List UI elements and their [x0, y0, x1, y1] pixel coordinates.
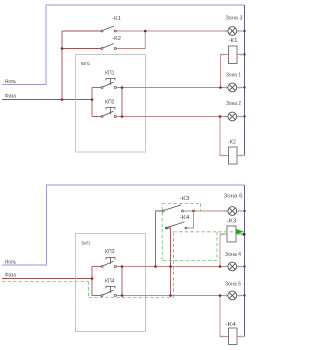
- green path toward and through coil K3: [174, 231, 237, 233]
- lamp HL Зона 4: [228, 262, 237, 271]
- coil K1: [229, 46, 238, 64]
- svg-text:Зона 4: Зона 4: [225, 252, 241, 258]
- junction dot bus/Зона 2: [243, 115, 245, 117]
- wire coil K1 left tap down to Зона 1 row: [221, 55, 229, 88]
- coil K4: [229, 328, 238, 345]
- svg-text:-К2: -К2: [112, 36, 121, 42]
- junction dot riser155/КП3 row: [154, 265, 157, 268]
- coil K2: [229, 147, 238, 164]
- junction dot bus/Зона 6: [243, 210, 245, 212]
- wire КП3 output row to lamp Зона 4: [117, 266, 228, 268]
- junction dot riser/K2 row: [61, 47, 64, 50]
- junction dot link2/КП4 row: [121, 294, 124, 297]
- svg-text:-К3: -К3: [227, 219, 237, 225]
- lamp HL Зона 6: [228, 207, 237, 216]
- wire coil K3 left tap down to Зона 4 row: [220, 234, 227, 267]
- contact K3 (-К3 relay contact, NO): [162, 205, 184, 212]
- wire coil K2 left tap from Зона 2 row: [220, 117, 229, 156]
- svg-text:-К4: -К4: [225, 322, 236, 328]
- wire coil K4 right to bus: [237, 336, 245, 338]
- green path left vertical beside К3 riser: [161, 204, 163, 261]
- wire neutral bus (Ноль): left feed, up, top run, right bus down: [2, 5, 245, 85]
- svg-text:Фаза: Фаза: [5, 93, 17, 99]
- svg-text:-К1: -К1: [229, 38, 238, 44]
- wire КП4 output row to lamp Зона 5: [117, 295, 228, 297]
- svg-text:-К3: -К3: [180, 196, 190, 202]
- svg-text:ВкП1: ВкП1: [81, 61, 90, 67]
- wire link 2 x=122 between button rows: [121, 267, 123, 296]
- svg-text:Зона 2: Зона 2: [226, 101, 241, 107]
- pushbutton КП4: [101, 287, 116, 297]
- wire riser x=155.5 КП3 row to K3 contact row: [156, 211, 163, 267]
- svg-text:-К1: -К1: [112, 16, 121, 22]
- contact K1 (-К1 relay contact, NO): [101, 26, 116, 32]
- contact K2 (-К2 relay contact, NO): [101, 44, 116, 50]
- junction dot riser170/КП3 row crossing: [169, 265, 172, 268]
- wire coil K2 right to bus: [237, 155, 245, 157]
- wire КП1 output row to lamp Зона 1: [117, 87, 228, 89]
- svg-text:Зона 6: Зона 6: [224, 194, 243, 200]
- wire into КП1: [92, 87, 101, 89]
- wire КП2 output row to lamp Зона 2: [117, 116, 228, 118]
- green path drop to КП4 row: [88, 282, 90, 298]
- svg-text:Зона 1: Зона 1: [226, 73, 241, 79]
- wire button branch riser 2 x=92: [91, 267, 93, 296]
- svg-text:КП1: КП1: [105, 71, 115, 77]
- junction dot K4 riser joins K3 row: [192, 210, 195, 213]
- green path across above contact К3: [162, 203, 200, 205]
- wire lamp Зона 2 to bus: [237, 116, 245, 118]
- junction dot phase/branch: [91, 98, 94, 101]
- junction dot bus/coil K3: [243, 233, 246, 236]
- svg-text:Фаза: Фаза: [5, 272, 17, 278]
- svg-text:-К2: -К2: [228, 140, 236, 146]
- green path down beside coil tap riser: [216, 232, 218, 261]
- junction dot tap/Зона 2 row: [219, 115, 222, 118]
- junction dot K2->K1 row: [144, 30, 147, 33]
- lamp HL Зона 5: [228, 291, 237, 300]
- green arrow exiting coil K3 toward bus: [237, 230, 243, 234]
- wire K1 row to lamp Зона 3: [117, 30, 228, 32]
- wire neutral right bus (top circuit): [244, 5, 246, 156]
- green path riser beside x=170.5: [173, 232, 175, 298]
- wire link x=122 between button rows: [121, 88, 123, 117]
- lamp HL Зона 1: [228, 83, 237, 92]
- wire into КП3: [92, 266, 101, 268]
- pushbutton КП2: [101, 108, 116, 118]
- junction dot link2/КП3 row: [121, 265, 124, 268]
- junction dot bus/coil K1: [243, 53, 245, 55]
- svg-text:-К4: -К4: [180, 215, 190, 221]
- wire lamp Зона 5 to bus: [237, 295, 245, 297]
- pushbutton КП3: [101, 258, 116, 268]
- wire coil K1 right to bus: [237, 54, 245, 56]
- wire coil K4 left tap from Зона 5 row: [220, 296, 229, 337]
- junction dot riser170/КП4 row: [169, 294, 172, 297]
- wire K3 row to lamp Зона 6: [184, 210, 228, 212]
- svg-text:Зона 5: Зона 5: [225, 282, 241, 288]
- wire feed riser x=62 to contact rows: [61, 31, 63, 100]
- wire into КП2: [92, 116, 101, 118]
- wire lamp Зона 3 to bus: [237, 30, 245, 32]
- green path horizontal at y=260.5: [162, 260, 217, 262]
- svg-text:Зона 3: Зона 3: [226, 16, 243, 22]
- green path down to К3 row: [200, 204, 202, 212]
- wire neutral right bus (bottom circuit): [244, 185, 246, 337]
- svg-text:Ноль: Ноль: [5, 259, 16, 265]
- svg-text:КП2: КП2: [105, 100, 115, 106]
- junction dot bus/Зона 3: [243, 30, 245, 32]
- wire phase (Фаза) horizontal: [2, 99, 92, 101]
- junction dot tap/Зона 5 row: [219, 294, 222, 297]
- svg-text:ВкП1: ВкП1: [82, 241, 91, 247]
- wire neutral bus 2 (Ноль): left feed, up, top run, right bus down: [2, 185, 245, 265]
- wire K4 output up to K3 row: [187, 211, 194, 228]
- coil K3: [227, 226, 236, 242]
- wire lamp Зона 6 to bus: [237, 210, 245, 212]
- wire K2 contact row left: [62, 48, 101, 50]
- green path along Фаза 2: [2, 281, 89, 283]
- junction dot bus/Зона 4: [243, 265, 245, 267]
- terminal tick marks (connection points): [221, 30, 242, 338]
- pushbutton КП1: [101, 79, 116, 89]
- green path under КП4 row: [89, 297, 174, 299]
- enclosure box ВкП1 (bottom): [76, 234, 146, 332]
- svg-text:КП4: КП4: [105, 278, 115, 284]
- junction dot bus/Зона 5: [243, 294, 245, 296]
- junction dot tap/Зона 4 row: [219, 265, 222, 268]
- junction dot link/КП1 row: [121, 86, 124, 89]
- wire phase 2 (Фаза) horizontal: [2, 278, 92, 280]
- wire riser x=170.5 КП4 row up to K4 contact: [166, 228, 171, 296]
- wire coil K3 right to bus: [236, 233, 245, 235]
- svg-text:КП3: КП3: [105, 249, 115, 255]
- junction dot bus/Зона 1: [243, 86, 245, 88]
- lamp HL Зона 2: [228, 112, 237, 121]
- lamp HL Зона 3: [228, 27, 237, 36]
- wire lamp Зона 4 to bus: [237, 266, 245, 268]
- wire K1 contact row left: [62, 30, 101, 32]
- contact K4 (-К4 relay contact, NO): [166, 222, 188, 229]
- junction dot link/КП2 row: [121, 115, 124, 118]
- junction dot riser/phase: [61, 98, 64, 101]
- junction dot tap/Зона 1 row: [219, 86, 222, 89]
- wire into КП4: [92, 295, 101, 297]
- wire button branch riser x=92: [91, 88, 93, 117]
- enclosure box ВкП1: [76, 55, 146, 153]
- junction dot phase2/branch: [91, 277, 94, 280]
- wire lamp Зона 1 to bus: [237, 87, 245, 89]
- wire K2 row output joining K1 row: [117, 31, 146, 49]
